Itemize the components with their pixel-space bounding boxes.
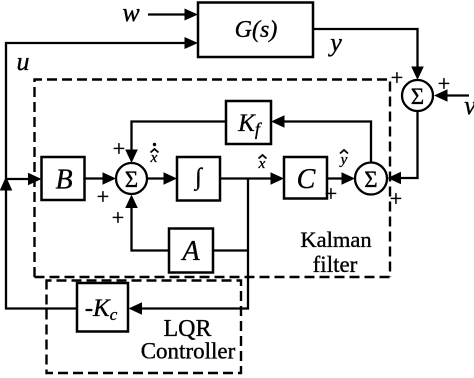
- svg-text:filter: filter: [313, 252, 358, 277]
- svg-text:+: +: [113, 136, 125, 161]
- svg-text:u: u: [17, 47, 30, 76]
- svg-text:C: C: [297, 164, 316, 195]
- svg-text:y: y: [327, 28, 342, 57]
- svg-text:Σ: Σ: [411, 84, 424, 109]
- svg-text:+: +: [325, 181, 337, 206]
- svg-text:Controller: Controller: [141, 339, 236, 364]
- svg-text:G(s): G(s): [235, 17, 278, 43]
- svg-text:Kalman: Kalman: [300, 227, 371, 252]
- svg-text:A: A: [180, 236, 200, 267]
- svg-text:+: +: [112, 205, 124, 230]
- svg-text:Σ: Σ: [364, 167, 377, 192]
- svg-text:y: y: [339, 152, 348, 168]
- svg-text:+: +: [438, 71, 450, 96]
- svg-text:+: +: [390, 186, 402, 211]
- svg-text:B: B: [55, 165, 72, 196]
- svg-text:w: w: [122, 0, 140, 27]
- svg-text:∫: ∫: [193, 165, 203, 192]
- svg-text:v: v: [464, 91, 474, 120]
- svg-text:+: +: [391, 65, 403, 90]
- svg-text:Σ: Σ: [125, 167, 138, 192]
- svg-text:+: +: [97, 184, 109, 209]
